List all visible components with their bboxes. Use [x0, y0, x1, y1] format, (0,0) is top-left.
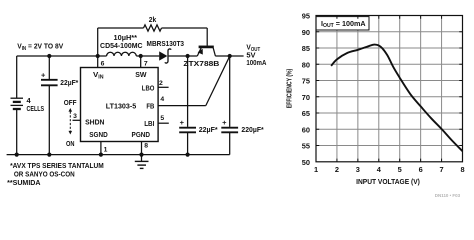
svg-text:70: 70 — [302, 93, 310, 102]
svg-text:2: 2 — [159, 80, 163, 87]
chart x labels — [314, 165, 465, 174]
chart plot border — [316, 16, 463, 162]
svg-text:95: 95 — [302, 12, 310, 21]
svg-text:50: 50 — [302, 158, 310, 167]
junction node C1-gnd — [47, 153, 51, 157]
junction node battery-gnd — [15, 153, 19, 157]
svg-text:7: 7 — [144, 60, 148, 67]
wire pin 8 lead — [141, 142, 143, 155]
svg-text:85: 85 — [302, 44, 310, 53]
wire LBI stub pin 5 — [158, 122, 169, 124]
svg-text:4: 4 — [377, 165, 382, 174]
svg-text:8: 8 — [144, 143, 148, 150]
svg-text:80: 80 — [302, 61, 310, 70]
svg-text:IOUT = 100mA: IOUT = 100mA — [321, 21, 366, 29]
wire ground rail — [7, 154, 230, 156]
wire SHDN stub pin 3 — [73, 119, 81, 121]
junction node L1-SW pin7 — [139, 54, 143, 58]
svg-text:3: 3 — [73, 113, 77, 120]
svg-text:VIN: VIN — [93, 70, 104, 81]
chart gridlines — [316, 16, 463, 162]
svg-text:5: 5 — [160, 115, 164, 122]
svg-text:22µF*: 22µF* — [60, 78, 78, 87]
svg-text:FB: FB — [146, 101, 154, 110]
diode D1 MBRS130T3 — [159, 51, 167, 60]
svg-text:2: 2 — [335, 165, 339, 174]
svg-text:+: + — [180, 118, 185, 127]
chart efficiency curve — [331, 45, 462, 152]
svg-text:65: 65 — [302, 109, 310, 118]
wire top feedback — [98, 27, 208, 29]
chart y labels — [302, 12, 310, 167]
junction node diode-C2 — [186, 54, 190, 58]
svg-text:5: 5 — [398, 165, 402, 174]
ground symbol — [135, 161, 149, 168]
junction node pin1-gnd — [99, 153, 103, 157]
transistor Q1 base bar — [199, 46, 214, 49]
wire FB stub pin 4 — [158, 105, 206, 107]
junction node VIN-L1 — [96, 54, 100, 58]
wire diode cathode to node — [169, 55, 198, 57]
svg-text:INPUT VOLTAGE (V): INPUT VOLTAGE (V) — [356, 177, 420, 186]
inductor L1 10uH CD54-100MC — [107, 52, 137, 56]
diode D1 schottky cathode bar — [165, 49, 171, 63]
svg-text:22µF*: 22µF* — [199, 125, 218, 134]
wire pin 1 lead — [100, 142, 102, 155]
battery B1 leads — [16, 56, 18, 155]
svg-text:100mA: 100mA — [246, 58, 266, 67]
svg-text:SHDN: SHDN — [85, 117, 104, 126]
wire VIN rail — [17, 55, 107, 57]
svg-text:90: 90 — [302, 28, 310, 37]
chart label box IOUT — [316, 17, 369, 30]
wire SW to diode anode — [136, 55, 159, 57]
capacitor C2 plates — [179, 128, 196, 133]
svg-text:ZTX788B: ZTX788B — [183, 59, 220, 68]
svg-text:LBO: LBO — [142, 84, 155, 93]
svg-text:SW: SW — [135, 70, 147, 79]
svg-text:+: + — [41, 70, 46, 79]
svg-text:EFFICIENCY (%): EFFICIENCY (%) — [287, 69, 294, 109]
junction node C1 top — [47, 54, 51, 58]
junction node VOUT — [228, 54, 232, 58]
svg-text:220µF*: 220µF* — [241, 125, 263, 134]
svg-text:1: 1 — [104, 147, 108, 154]
chart axis ticks — [316, 16, 463, 162]
svg-text:75: 75 — [302, 77, 310, 86]
svg-text:CD54-100MC: CD54-100MC — [100, 41, 143, 50]
wire collector to VOUT — [215, 55, 243, 57]
svg-text:SGND: SGND — [89, 130, 108, 139]
battery B1 plates — [11, 98, 24, 109]
transistor Q1 collector wire — [213, 48, 215, 56]
junction node C2-gnd — [186, 153, 190, 157]
svg-text:**SUMIDA: **SUMIDA — [7, 178, 41, 187]
capacitor C1 plates — [41, 80, 58, 86]
svg-text:ON: ON — [66, 139, 75, 148]
svg-text:VIN = 2V TO 8V: VIN = 2V TO 8V — [17, 42, 63, 53]
wire vertical right of 2k to Q1 base — [206, 28, 208, 46]
wire pin 7 lead — [140, 56, 142, 68]
svg-text:+: + — [222, 118, 227, 127]
wire FB diagonal to VOUT node — [206, 56, 230, 105]
svg-text:LT1303-5: LT1303-5 — [106, 101, 137, 110]
svg-text:CELLS: CELLS — [27, 104, 45, 113]
transistor Q1 emitter arrow — [198, 49, 203, 55]
svg-text:60: 60 — [302, 126, 310, 135]
svg-text:DN110 • F03: DN110 • F03 — [435, 193, 461, 198]
transistor Q1 emitter wire — [197, 48, 201, 56]
wire vertical left of 2k to VIN node — [97, 28, 99, 68]
svg-text:4: 4 — [160, 96, 164, 103]
IC U1 LT1303-5 box — [81, 68, 159, 142]
ground symbol lead — [141, 155, 143, 161]
svg-text:7: 7 — [440, 165, 444, 174]
capacitor C3 220uF leads — [229, 56, 231, 155]
capacitor C3 plates — [221, 128, 238, 133]
junction node pin8-gnd — [139, 153, 143, 157]
svg-text:3: 3 — [356, 165, 360, 174]
svg-text:55: 55 — [302, 142, 310, 151]
svg-text:6: 6 — [419, 165, 423, 174]
shutdown dashed arrow — [69, 112, 71, 132]
svg-text:MBRS130T3: MBRS130T3 — [147, 39, 185, 48]
svg-text:8: 8 — [460, 165, 464, 174]
svg-text:LBI: LBI — [144, 119, 154, 128]
svg-text:OFF: OFF — [64, 98, 77, 107]
capacitor C2 22uF output leads — [187, 56, 189, 155]
resistor R1 2k zigzag — [144, 25, 162, 31]
capacitor C1 22uF leads — [48, 56, 50, 155]
svg-text:6: 6 — [101, 60, 105, 67]
svg-text:1: 1 — [314, 165, 318, 174]
svg-text:PGND: PGND — [132, 130, 151, 139]
svg-text:2k: 2k — [149, 15, 157, 24]
wire LBO stub pin 2 — [158, 86, 169, 88]
